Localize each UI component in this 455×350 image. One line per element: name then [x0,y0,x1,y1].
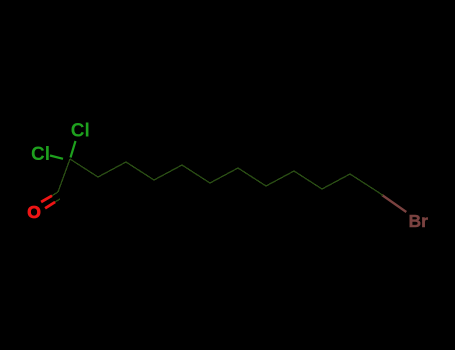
svg-text:Cl: Cl [71,121,90,142]
svg-text:O: O [27,202,41,222]
svg-text:Cl: Cl [31,144,50,165]
svg-text:Br: Br [409,211,429,231]
